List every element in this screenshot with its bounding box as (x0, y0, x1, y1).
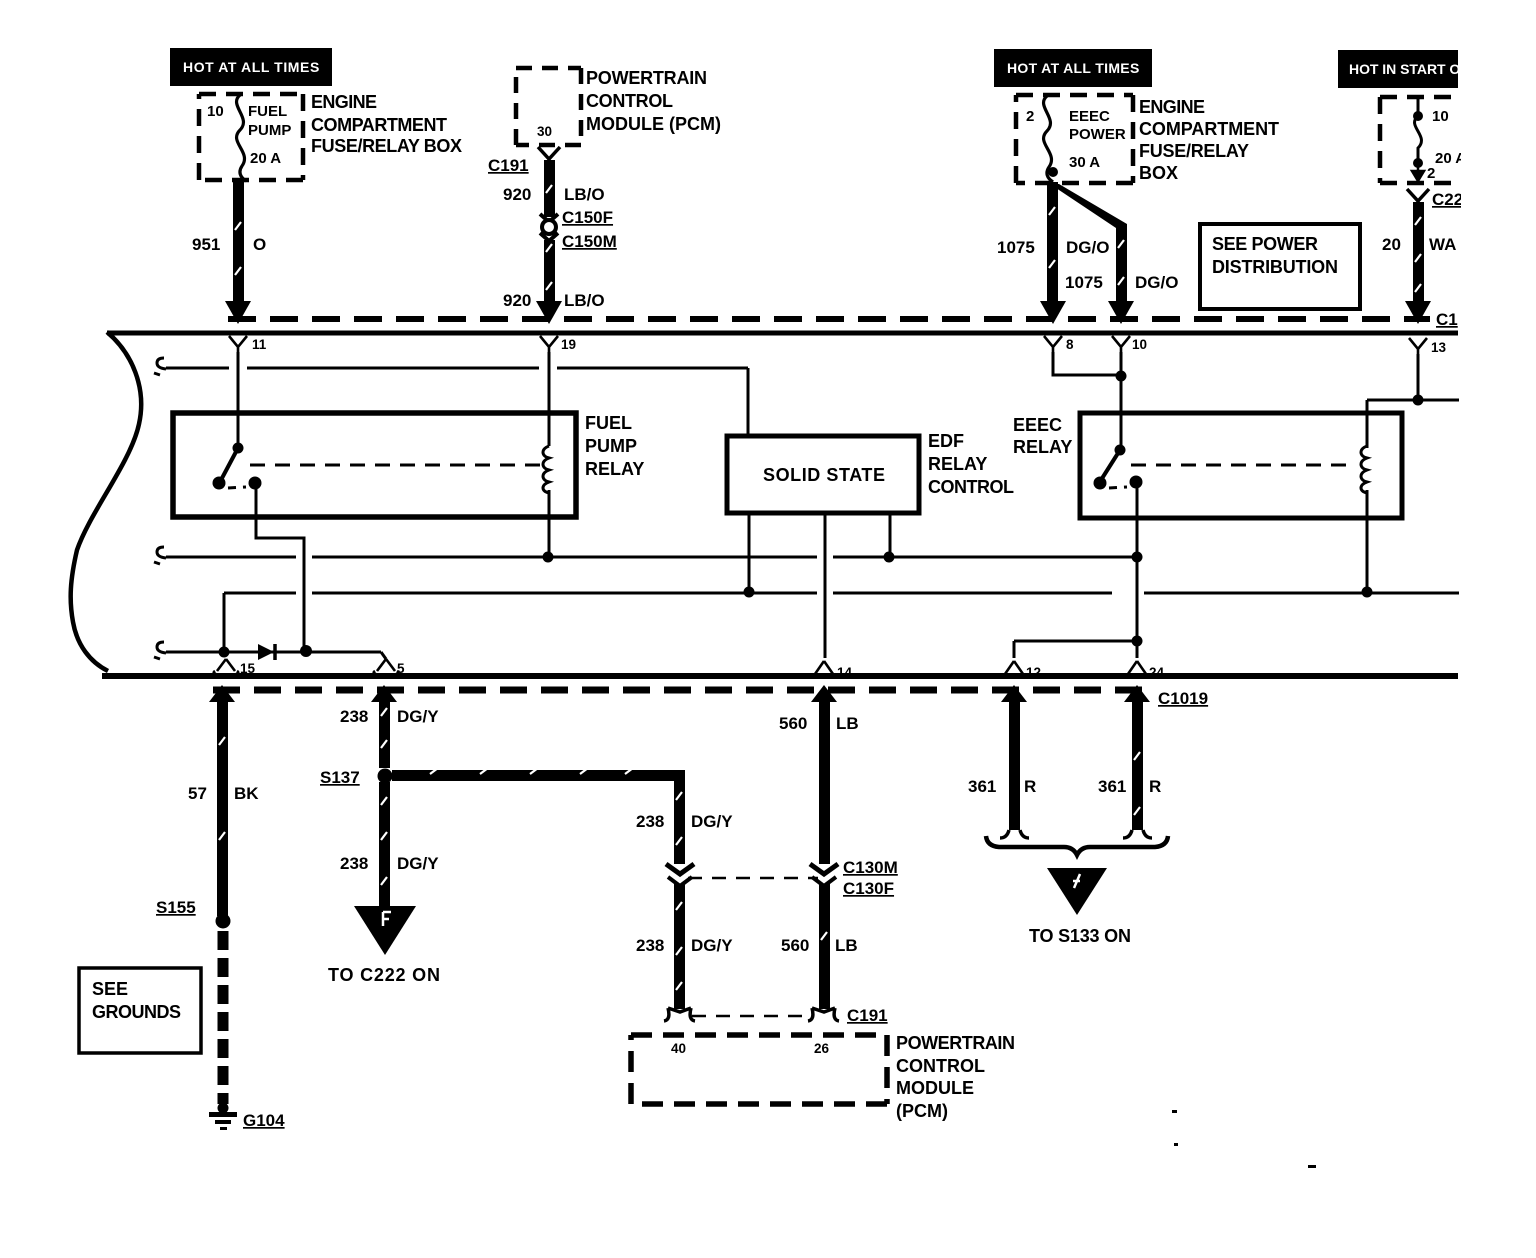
svg-text:20 A: 20 A (250, 150, 281, 167)
powertrain control module PCM (bottom, dashed box) (631, 1033, 1015, 1121)
module torn left edge (71, 332, 142, 671)
svg-text:560: 560 (781, 936, 809, 955)
svg-text:COMPARTMENT: COMPARTMENT (311, 115, 447, 135)
junction: EEEC output / pin 24 branch (1132, 636, 1143, 647)
connector C191 (top) (488, 147, 560, 175)
internal line 2 (hook, relay coil, solid state, EEEC output) (154, 547, 1137, 564)
svg-text:DG/Y: DG/Y (397, 707, 439, 726)
solid state output wires (749, 515, 890, 658)
stray scan specks (1172, 1110, 1316, 1168)
off-page arrow TO S133 (1029, 868, 1131, 946)
junction: EEEC output / line 2 end (1132, 552, 1143, 563)
svg-text:SEE: SEE (92, 979, 128, 999)
svg-text:TO S133 ON: TO S133 ON (1029, 926, 1131, 946)
fuse box: engine compartment fuse/relay box (right, dashed) (1016, 95, 1133, 183)
svg-text:DISTRIBUTION: DISTRIBUTION (1212, 257, 1338, 277)
wire hatch marks (white slashes on thick wires) (219, 185, 1421, 990)
svg-text:SOLID STATE: SOLID STATE (763, 465, 885, 485)
pin 11 (module top) (229, 336, 267, 355)
brace (361 wires joined) (986, 836, 1168, 855)
wire EEEC relay output to pins 12/24 (1014, 488, 1137, 658)
wire pins 8/10 join to EEEC relay contact (1053, 352, 1121, 448)
svg-text:RELAY: RELAY (585, 459, 644, 479)
svg-text:920: 920 (503, 291, 531, 310)
fuse EEEC POWER 30 A (1026, 96, 1126, 182)
svg-text:R: R (1024, 777, 1036, 796)
svg-text:FUSE/RELAY BOX: FUSE/RELAY BOX (311, 136, 462, 156)
junction: solid state to line 2 (884, 552, 895, 563)
svg-text:DG/Y: DG/Y (691, 812, 733, 831)
wire 238 DG/Y (C130F to C191 pin 40) (636, 884, 733, 1009)
svg-text:EEEC: EEEC (1069, 108, 1110, 125)
svg-text:30 A: 30 A (1069, 154, 1100, 171)
svg-text:238: 238 (636, 812, 664, 831)
ground G104 (209, 1103, 285, 1131)
svg-text:O: O (253, 235, 266, 254)
svg-text:MODULE (PCM): MODULE (PCM) (586, 114, 721, 134)
pin 13 (module top) (1409, 338, 1447, 357)
pin 12 (module bottom) (1002, 661, 1041, 680)
svg-text:C130F: C130F (843, 879, 894, 898)
wire 238 DG/Y (S137 down to arrow) (340, 782, 439, 907)
svg-text:ENGINE: ENGINE (311, 92, 377, 112)
svg-text:DG/Y: DG/Y (691, 936, 733, 955)
svg-text:15: 15 (240, 661, 256, 676)
fuel pump relay link (dashed) (250, 464, 540, 467)
fuse box: far right (dashed, clipped at page edge) (1380, 97, 1459, 183)
svg-text:DG/O: DG/O (1135, 273, 1178, 292)
svg-text:CONTROL: CONTROL (928, 477, 1014, 497)
internal line 1 (hook to solid state) (154, 358, 748, 434)
label: engine compartment fuse/relay box (right) (1139, 97, 1279, 183)
svg-text:19: 19 (561, 337, 576, 352)
svg-text:C191: C191 (488, 156, 529, 175)
EEEC relay box (1013, 413, 1402, 518)
svg-text:COMPARTMENT: COMPARTMENT (1139, 119, 1279, 139)
wire 20 W/A to pin 13 (1382, 202, 1458, 329)
svg-text:PUMP: PUMP (585, 436, 637, 456)
fuel pump relay coil (543, 446, 549, 493)
powertrain control module PCM (top, dashed box) (516, 68, 721, 145)
svg-text:WA: WA (1429, 235, 1456, 254)
wire 920 LB/O (lower) to pin 19 (503, 240, 605, 324)
junction: EEEC coil / line y593 (1362, 587, 1373, 598)
note box: SEE POWER DISTRIBUTION (1200, 224, 1360, 309)
svg-text:10: 10 (207, 103, 224, 120)
svg-text:(PCM): (PCM) (896, 1101, 948, 1121)
wire relay coil to line 2 (548, 490, 551, 557)
fuse 10 / 20 A (far right) (1412, 97, 1466, 182)
pin 8 (module top) (1044, 336, 1074, 355)
svg-text:20: 20 (1382, 235, 1401, 254)
pin 10 (module top) (1112, 336, 1147, 355)
EEEC relay contacts (1094, 445, 1143, 490)
splice S137 (320, 768, 393, 787)
svg-text:13: 13 (1431, 340, 1447, 355)
svg-text:TO C222 ON: TO C222 ON (328, 965, 440, 985)
svg-text:1075: 1075 (997, 238, 1035, 257)
svg-text:S137: S137 (320, 768, 360, 787)
module bottom edge (solid) (102, 673, 1458, 679)
internal line 3 (hook, diode row) (154, 642, 386, 659)
svg-text:HOT AT ALL TIMES: HOT AT ALL TIMES (183, 59, 320, 75)
svg-text:FUSE/RELAY: FUSE/RELAY (1139, 141, 1249, 161)
wire pin 19 to fuel pump relay coil (548, 352, 551, 446)
svg-text:CONTROL: CONTROL (896, 1056, 985, 1076)
wire 560 LB (C130F to C191 pin 26) (781, 884, 858, 1009)
fuse FUEL PUMP 20 A (207, 95, 291, 181)
svg-text:10: 10 (1432, 108, 1449, 125)
svg-text:LB/O: LB/O (564, 291, 605, 310)
svg-text:RELAY: RELAY (1013, 437, 1072, 457)
svg-text:238: 238 (636, 936, 664, 955)
svg-text:10: 10 (1132, 337, 1147, 352)
svg-text:RELAY: RELAY (928, 454, 987, 474)
svg-text:LB/O: LB/O (564, 185, 605, 204)
svg-text:LB: LB (836, 714, 859, 733)
connector C130M / C130F (inline pair) (666, 858, 898, 898)
connector C150F / C150M (inline, top) (540, 208, 617, 251)
svg-text:5: 5 (397, 661, 405, 676)
junction: pin 8 jog / pin 10 wire (1116, 371, 1127, 382)
svg-text:BOX: BOX (1139, 163, 1178, 183)
connector C2 (far right) (1407, 189, 1463, 209)
svg-text:POWERTRAIN: POWERTRAIN (896, 1033, 1015, 1053)
pin 19 (module top) (540, 336, 576, 355)
svg-text:PUMP: PUMP (248, 122, 291, 139)
wire 361 R (pin 12) (968, 685, 1036, 838)
module connector bus (bottom, dashed) (213, 687, 1148, 694)
svg-text:C1: C1 (1436, 310, 1458, 329)
power label: HOT AT ALL TIMES (right) (994, 49, 1152, 87)
svg-text:C150F: C150F (562, 208, 613, 227)
pin 15 (module bottom) (214, 659, 256, 676)
svg-text:8: 8 (1066, 337, 1074, 352)
svg-text:SEE POWER: SEE POWER (1212, 234, 1318, 254)
svg-text:12: 12 (1026, 665, 1041, 680)
svg-text:G104: G104 (243, 1111, 285, 1130)
connector C191 (bottom) (664, 1006, 888, 1025)
diode (on line 3) (258, 644, 275, 660)
svg-text:FUEL: FUEL (248, 103, 287, 120)
splice S155 (156, 898, 231, 929)
svg-text:CONTROL: CONTROL (586, 91, 673, 111)
wire pin 11 to fuel pump relay contact (237, 352, 240, 446)
svg-text:MODULE: MODULE (896, 1078, 974, 1098)
fuel pump relay contacts (213, 443, 262, 490)
svg-text:238: 238 (340, 854, 368, 873)
wire 920 LB/O (upper) (503, 160, 605, 217)
EEEC relay link (dashed) (1131, 464, 1356, 467)
label: engine compartment fuse/relay box (left) (311, 92, 462, 156)
note box: SEE GROUNDS (79, 968, 201, 1053)
wire 238 DG/Y (pin 5 to S137) (340, 685, 439, 768)
wire EEEC coil to line y593 (1366, 490, 1369, 592)
svg-text:30: 30 (537, 124, 552, 139)
svg-text:238: 238 (340, 707, 368, 726)
junction: coil / line 2 (543, 552, 554, 563)
wire 57 BK (pin 15 to S155) (188, 685, 259, 916)
svg-text:24: 24 (1149, 665, 1165, 680)
svg-text:DG/Y: DG/Y (397, 854, 439, 873)
wire pin 13 / coil top feed (1367, 354, 1459, 448)
fuel pump relay box (173, 413, 644, 517)
module connector bus (top, dashed) (228, 316, 1430, 322)
svg-text:C150M: C150M (562, 232, 617, 251)
page margin mask (scan edge) (1461, 0, 1536, 1258)
svg-text:361: 361 (968, 777, 996, 796)
svg-text:C191: C191 (847, 1006, 888, 1025)
wire 560 LB (pin 14 to C130M) (779, 685, 859, 864)
svg-text:HOT AT ALL TIMES: HOT AT ALL TIMES (1007, 60, 1140, 76)
svg-text:26: 26 (814, 1041, 830, 1056)
junction: solid state to line y593 (744, 587, 755, 598)
wire 951 O (fuel pump fuse to pin 11) (192, 181, 266, 324)
svg-text:HOT IN START O: HOT IN START O (1349, 61, 1461, 77)
module top edge (solid) (107, 331, 1458, 336)
wire 361 R (pin 24) (1098, 685, 1161, 838)
svg-text:LB: LB (835, 936, 858, 955)
power label: HOT AT ALL TIMES (left) (170, 48, 332, 86)
svg-text:GROUNDS: GROUNDS (92, 1002, 181, 1022)
power label: HOT IN START (far right, clipped) (1338, 50, 1461, 88)
svg-text:57: 57 (188, 784, 207, 803)
wire 1075 DG/O (right branch to pin 10) (1050, 184, 1178, 324)
solid state box (EDF relay control) (727, 431, 1014, 513)
wire 238 DG/Y branch (S137 right then down to PCM pin 40) (392, 770, 733, 864)
svg-text:ENGINE: ENGINE (1139, 97, 1205, 117)
off-page arrow TO C222 (328, 906, 440, 985)
svg-text:C22: C22 (1432, 190, 1463, 209)
wire fuel pump relay output (to line 3) (256, 488, 304, 650)
svg-text:C130M: C130M (843, 858, 898, 877)
svg-text:EEEC: EEEC (1013, 415, 1062, 435)
junction dots on line 3 (219, 647, 230, 658)
svg-text:560: 560 (779, 714, 807, 733)
svg-text:1075: 1075 (1065, 273, 1103, 292)
junction: pin 13 wire / coil feed (1413, 395, 1424, 406)
svg-text:DG/O: DG/O (1066, 238, 1109, 257)
svg-text:2: 2 (1427, 165, 1435, 182)
svg-text:2: 2 (1026, 108, 1034, 125)
wire S155 to G104 (dashed) (218, 931, 229, 1104)
svg-text:R: R (1149, 777, 1161, 796)
pin 5 (module bottom) (374, 659, 405, 676)
svg-text:14: 14 (837, 665, 853, 680)
svg-text:POWER: POWER (1069, 126, 1126, 143)
svg-text:EDF: EDF (928, 431, 964, 451)
svg-text:C1019: C1019 (1158, 689, 1208, 708)
svg-text:361: 361 (1098, 777, 1126, 796)
svg-text:S155: S155 (156, 898, 196, 917)
fuse box: engine compartment fuse/relay box (left, dashed) (199, 94, 303, 180)
wire 1075 DG/O (left branch to pin 8) (997, 182, 1109, 324)
svg-text:951: 951 (192, 235, 220, 254)
svg-text:40: 40 (671, 1041, 686, 1056)
svg-text:11: 11 (252, 337, 267, 352)
svg-text:FUEL: FUEL (585, 413, 632, 433)
pin 24 (module bottom) (1125, 661, 1165, 680)
internal line (fuel pump relay output feed, y 593) (224, 593, 1459, 651)
EEEC relay coil (1361, 446, 1367, 493)
pin 14 (module bottom) (812, 661, 853, 680)
svg-text:BK: BK (234, 784, 259, 803)
svg-text:POWERTRAIN: POWERTRAIN (586, 68, 707, 88)
svg-text:920: 920 (503, 185, 531, 204)
